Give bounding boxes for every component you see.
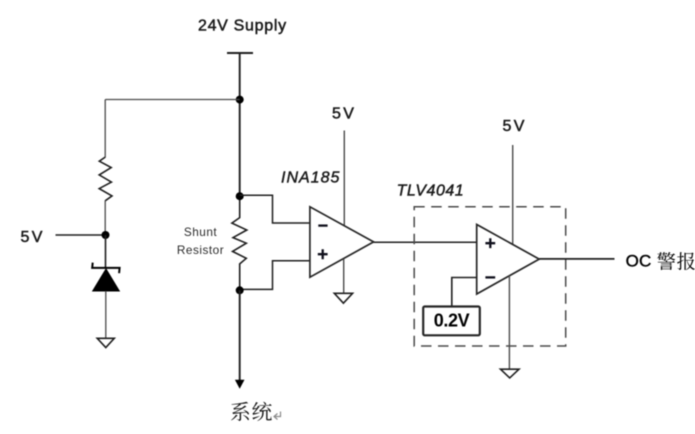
reference box 0.2V: [423, 307, 480, 336]
wire TLV bottom to ground: [508, 276, 510, 369]
node C shunt top dot: [236, 192, 244, 200]
label alarm CJK 警: [657, 252, 675, 270]
wire shunt bottom to INA+: [240, 261, 310, 290]
U2 minus sign: [485, 276, 495, 278]
zener diode D1 cathode bar: [92, 263, 119, 274]
label system CJK 系: [231, 402, 249, 421]
zener diode D1 anode triangle: [93, 269, 120, 291]
U1 plus sign: [318, 249, 328, 259]
wire 5V stub: [56, 234, 106, 236]
svg-text:5V: 5V: [21, 229, 45, 246]
wire 5V to TLV top: [512, 145, 514, 244]
wire main vertical bottom: [239, 290, 241, 381]
svg-text:24V Supply: 24V Supply: [198, 18, 287, 35]
wire shunt top to INA-: [240, 195, 310, 223]
wire 5V to INA top: [343, 131, 345, 226]
svg-text:INA185: INA185: [281, 170, 340, 187]
wire zener to ground: [105, 291, 107, 339]
svg-text:5V: 5V: [503, 118, 527, 135]
paragraph return mark: [274, 412, 281, 420]
svg-text:OC: OC: [626, 251, 652, 270]
resistor R1 zigzag left: [99, 157, 112, 201]
wire INA bottom to ground: [343, 259, 345, 294]
svg-text:5V: 5V: [332, 106, 356, 123]
wire main vertical top: [239, 53, 241, 196]
svg-text:Resistor: Resistor: [177, 243, 224, 257]
label alarm CJK 报: [677, 252, 695, 270]
dashed box: [414, 207, 566, 346]
ground G3: [501, 369, 520, 378]
wire INA output to TLV+: [374, 241, 477, 243]
wire resistor to 5V node: [104, 201, 106, 236]
wire left vertical to resistor: [104, 100, 106, 158]
op-amp U1 INA185 triangle: [310, 207, 374, 277]
label system CJK 统: [252, 402, 271, 421]
ground G2: [334, 293, 352, 303]
U2 plus sign: [485, 238, 495, 248]
node A junction dot top: [236, 96, 244, 104]
node B 5V junction dot: [102, 231, 110, 239]
arrow to system: [235, 380, 245, 389]
ground G1: [97, 338, 114, 347]
wire branch left horizontal: [105, 99, 240, 101]
U1 minus sign: [318, 224, 327, 226]
wire node to zener: [105, 235, 107, 268]
op-amp U2 TLV4041 triangle: [477, 225, 540, 295]
svg-text:Shunt: Shunt: [184, 225, 218, 239]
wire TLV- to reference: [452, 278, 477, 307]
node D shunt bottom dot: [236, 286, 244, 294]
svg-text:TLV4041: TLV4041: [397, 183, 465, 200]
supply terminal bar: [227, 52, 253, 54]
svg-text:0.2V: 0.2V: [434, 310, 470, 330]
shunt resistor zigzag: [232, 196, 247, 290]
wire TLV output: [539, 258, 614, 260]
